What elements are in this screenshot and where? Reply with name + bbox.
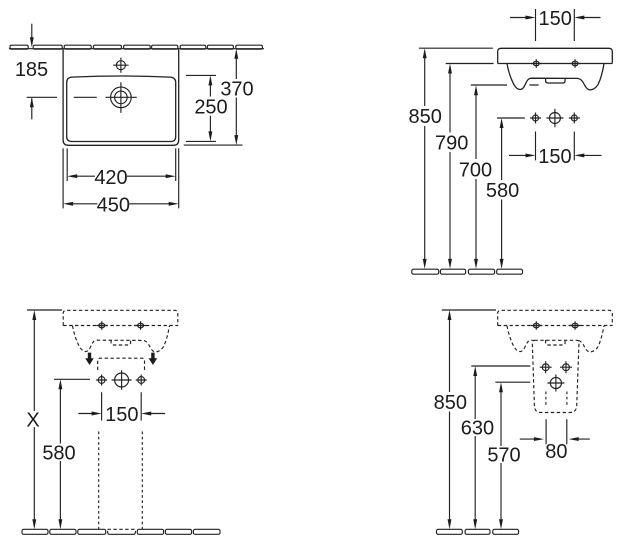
fixing hole right [135,321,146,330]
dim 185 extension line [27,96,57,98]
basin rim front [498,48,613,63]
fixing hole right [570,59,581,68]
dim 150 v3 extension lines [102,392,142,420]
pedestal hole right [136,375,147,386]
dashed basin side [498,310,613,352]
wall tiles [10,45,262,49]
body contour [507,326,604,352]
svg-text:450: 450 [97,194,130,216]
svg-text:80: 80 [545,441,567,463]
dim 420 [76,175,167,177]
wall baseline [9,48,264,50]
dim 80 arrows [520,438,590,440]
tap hole crosshair [113,58,128,73]
dim 570 v4 [495,381,530,383]
dim 580 v2 [497,117,525,119]
dim 850 v2 [419,47,493,49]
dim 250 [209,84,211,133]
dim 150 v3 arrows [78,413,165,415]
floor tiles view2 [412,269,523,274]
overflow box [111,340,131,345]
fixing hole right [570,321,581,330]
svg-text:X: X [26,409,39,431]
dim 80 extension lines [546,419,567,444]
dim 850 v4 [442,309,496,311]
overflow box [546,340,566,345]
pedestal hole bottom [547,375,564,392]
dim 580 v3 [54,378,90,380]
rim [63,310,178,325]
basin outer rect [63,49,179,146]
svg-text:370: 370 [220,79,253,101]
svg-text:150: 150 [105,404,138,426]
fixing hole left [531,59,542,68]
dim 370 [235,58,237,137]
svg-text:150: 150 [539,8,572,30]
svg-text:580: 580 [486,180,519,202]
rim bottom line [498,325,613,327]
dim X [27,309,62,311]
ext line bowl top right [186,74,216,76]
svg-text:850: 850 [434,392,467,414]
mounting arrow right [149,353,158,365]
dim 150 bottom: arrows [509,154,602,156]
floor tile under pedestal (dashed top) [108,531,136,534]
pedestal top dashed rect [98,358,145,370]
dim 150 top: arrows [510,17,601,19]
drain hole [106,82,137,113]
pedestal hole right [560,361,572,373]
svg-text:150: 150 [538,146,571,168]
svg-text:570: 570 [487,445,520,467]
hidden slot lines [546,392,567,407]
dim 185 arrows [31,24,33,120]
floor tiles view4 [437,529,519,534]
rim bottom line [498,63,613,65]
centerline dash [74,96,97,98]
dim 150 bottom: extension lines [536,132,575,161]
svg-text:420: 420 [94,167,127,189]
pedestal hole center [112,370,132,390]
svg-text:850: 850 [409,106,442,128]
pedestal hole left [540,361,552,373]
ext line outer bottom right [184,144,243,146]
pedestal sides dashed [99,432,143,530]
dim 150 top: extension lines [536,9,575,41]
floor tiles view3 [22,529,220,534]
dim 790 v2 [446,63,494,65]
pedestal hole left [96,375,107,386]
svg-text:630: 630 [461,418,494,440]
overflow box [546,78,566,83]
dim 700 v2 [471,84,539,86]
svg-text:790: 790 [435,132,468,154]
ext line bowl bottom right [186,140,216,142]
fixing hole left [531,321,542,330]
pedestal side dashed [532,340,579,412]
dim 630 v4 [471,365,530,367]
basin inner bowl [67,76,176,142]
svg-text:580: 580 [42,443,75,465]
lower hole right [569,113,580,124]
svg-text:185: 185 [15,59,48,81]
rim bottom line [63,325,178,327]
lower hole center [546,109,563,128]
ext lines below basin [63,148,179,208]
mounting arrow left [85,353,94,365]
dim 450 [72,203,170,205]
svg-text:700: 700 [459,159,492,181]
lower hole left [530,113,541,124]
body contour [73,326,170,352]
fixing hole left [96,321,107,330]
dashed basin front [63,310,178,352]
body contour [507,64,604,90]
rim [498,310,613,325]
